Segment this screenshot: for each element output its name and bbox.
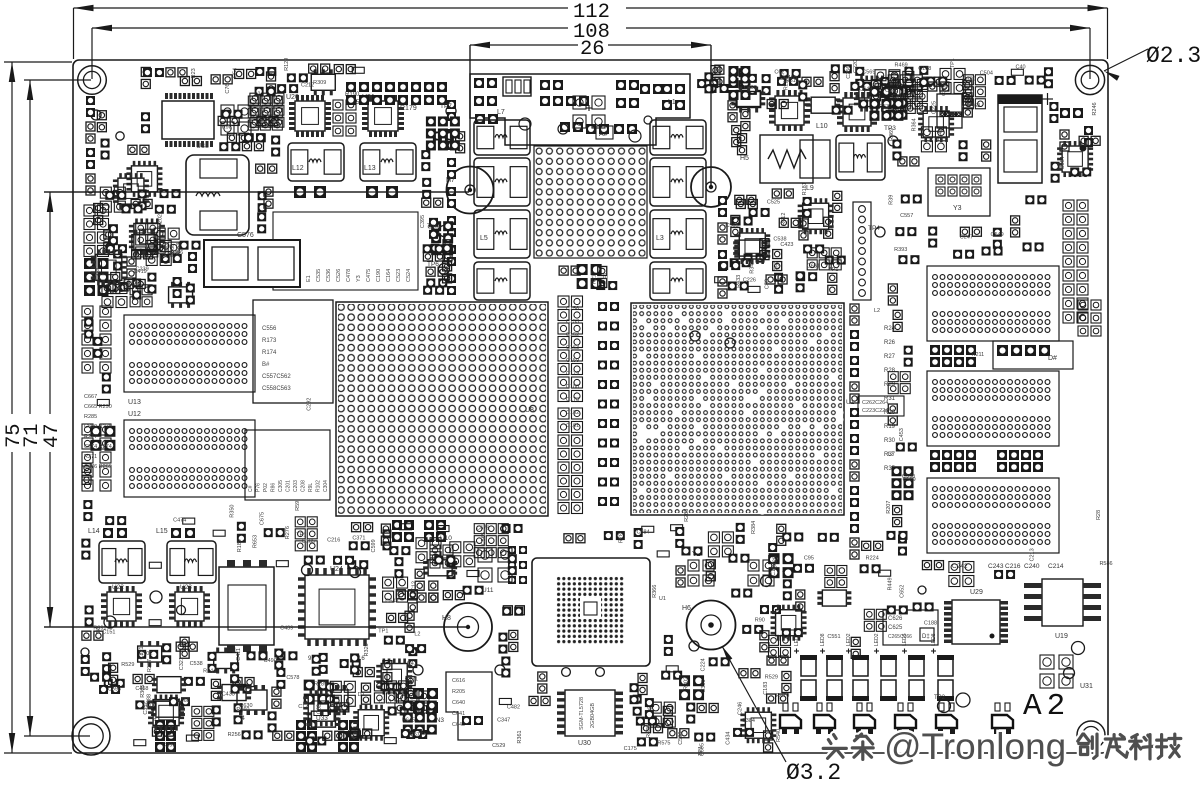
svg-text:P02: P02 bbox=[263, 483, 269, 492]
svg-text:C504: C504 bbox=[980, 71, 993, 77]
svg-text:R59: R59 bbox=[295, 501, 301, 511]
svg-text:C475: C475 bbox=[366, 269, 372, 282]
svg-text:U19: U19 bbox=[1055, 633, 1068, 640]
svg-text:C17: C17 bbox=[298, 704, 308, 710]
svg-text:C536: C536 bbox=[326, 269, 332, 282]
svg-text:U22: U22 bbox=[112, 584, 124, 591]
svg-text:R189: R189 bbox=[237, 539, 243, 552]
svg-text:C576: C576 bbox=[237, 232, 254, 239]
svg-text:C384: C384 bbox=[96, 267, 102, 280]
svg-text:C41: C41 bbox=[152, 715, 158, 725]
svg-text:C439: C439 bbox=[280, 625, 293, 631]
svg-text:C212: C212 bbox=[301, 82, 314, 88]
svg-text:C490: C490 bbox=[264, 658, 277, 664]
svg-text:R540: R540 bbox=[776, 729, 782, 742]
svg-text:U1: U1 bbox=[659, 596, 666, 602]
svg-text:C667: C667 bbox=[84, 394, 97, 400]
svg-text:TP4: TP4 bbox=[868, 225, 880, 232]
svg-text:R276: R276 bbox=[285, 526, 291, 539]
svg-text:R302: R302 bbox=[683, 677, 689, 690]
svg-text:C667: C667 bbox=[125, 279, 131, 292]
svg-text:R469: R469 bbox=[889, 128, 895, 141]
svg-text:U24: U24 bbox=[330, 566, 343, 573]
svg-text:C674 R274: C674 R274 bbox=[84, 444, 112, 450]
svg-text:C577: C577 bbox=[410, 732, 423, 738]
svg-text:Ø2.3: Ø2.3 bbox=[1146, 43, 1200, 69]
svg-text:C256: C256 bbox=[846, 66, 852, 79]
svg-text:SGM-TL5728: SGM-TL5728 bbox=[579, 697, 585, 730]
svg-text:C225: C225 bbox=[932, 101, 938, 114]
svg-text:C596: C596 bbox=[108, 687, 121, 693]
svg-text:C538: C538 bbox=[773, 237, 786, 243]
svg-text:C669 R279: C669 R279 bbox=[84, 424, 112, 430]
svg-text:C203: C203 bbox=[293, 480, 299, 492]
svg-text:C208: C208 bbox=[301, 480, 307, 492]
svg-text:R28: R28 bbox=[1096, 510, 1102, 520]
svg-text:C171: C171 bbox=[405, 676, 418, 682]
svg-text:E1: E1 bbox=[306, 275, 312, 282]
svg-text:C76: C76 bbox=[225, 83, 231, 93]
svg-text:R28: R28 bbox=[884, 368, 896, 374]
svg-text:R207: R207 bbox=[886, 501, 892, 514]
svg-text:C557: C557 bbox=[900, 213, 913, 219]
svg-text:L14: L14 bbox=[88, 528, 100, 535]
svg-text:TP1: TP1 bbox=[698, 746, 704, 756]
svg-text:C478: C478 bbox=[346, 269, 352, 282]
svg-text:R384: R384 bbox=[751, 521, 757, 534]
svg-text:R320: R320 bbox=[364, 643, 370, 656]
svg-text:C213: C213 bbox=[1030, 548, 1036, 561]
svg-text:C420: C420 bbox=[772, 556, 778, 569]
svg-text:R23: R23 bbox=[191, 68, 197, 78]
svg-text:TP1: TP1 bbox=[828, 267, 838, 273]
svg-text:C265C266: C265C266 bbox=[888, 634, 912, 640]
svg-text:C565: C565 bbox=[725, 223, 738, 229]
svg-text:C463: C463 bbox=[967, 103, 980, 109]
svg-text:C53: C53 bbox=[879, 104, 889, 110]
svg-text:R78: R78 bbox=[618, 533, 624, 543]
svg-text:U20: U20 bbox=[286, 94, 299, 101]
svg-text:C551: C551 bbox=[827, 634, 840, 640]
svg-text:26: 26 bbox=[580, 38, 605, 61]
svg-text:C625: C625 bbox=[888, 625, 903, 631]
svg-text:R181: R181 bbox=[802, 182, 808, 195]
svg-text:L2: L2 bbox=[254, 92, 260, 98]
svg-text:C538: C538 bbox=[190, 661, 203, 667]
svg-text:A#: A# bbox=[599, 131, 608, 138]
svg-text:R356: R356 bbox=[170, 250, 183, 256]
svg-text:Y3: Y3 bbox=[953, 205, 962, 212]
svg-text:R129: R129 bbox=[284, 58, 290, 71]
svg-text:C156: C156 bbox=[566, 306, 579, 312]
svg-text:R364: R364 bbox=[912, 118, 918, 131]
svg-text:TP2: TP2 bbox=[934, 695, 946, 701]
svg-text:R529: R529 bbox=[121, 662, 134, 668]
svg-text:C243: C243 bbox=[988, 563, 1004, 570]
svg-text:R179: R179 bbox=[400, 105, 417, 112]
svg-text:C411: C411 bbox=[236, 648, 242, 661]
svg-text:U11: U11 bbox=[482, 587, 494, 594]
svg-text:R202: R202 bbox=[157, 214, 163, 227]
svg-text:R653: R653 bbox=[252, 535, 258, 548]
svg-text:P76: P76 bbox=[256, 483, 262, 492]
svg-text:U23: U23 bbox=[180, 584, 192, 591]
svg-text:D1: D1 bbox=[358, 692, 365, 698]
svg-text:2GB04GB: 2GB04GB bbox=[590, 703, 596, 728]
svg-text:C433: C433 bbox=[222, 692, 235, 698]
svg-text:C640: C640 bbox=[452, 700, 465, 706]
svg-text:R217: R217 bbox=[591, 271, 597, 284]
svg-text:R612: R612 bbox=[781, 213, 787, 226]
svg-text:C161: C161 bbox=[566, 423, 579, 429]
svg-text:C95: C95 bbox=[804, 555, 814, 561]
svg-text:C434: C434 bbox=[726, 732, 732, 745]
svg-text:R285: R285 bbox=[84, 414, 97, 420]
svg-text:C365: C365 bbox=[427, 225, 440, 231]
svg-text:C188: C188 bbox=[924, 621, 937, 627]
svg-text:C356: C356 bbox=[701, 680, 707, 693]
svg-text:C371: C371 bbox=[352, 535, 365, 541]
svg-text:R510: R510 bbox=[162, 243, 168, 256]
svg-text:U13: U13 bbox=[128, 399, 141, 406]
svg-text:C558C563: C558C563 bbox=[262, 386, 291, 392]
svg-text:C292: C292 bbox=[307, 398, 313, 411]
svg-text:R27: R27 bbox=[884, 354, 896, 360]
svg-text:C652: C652 bbox=[900, 585, 906, 598]
svg-text:C40: C40 bbox=[1015, 64, 1025, 70]
svg-text:C416: C416 bbox=[892, 94, 905, 100]
svg-text:C321: C321 bbox=[139, 646, 145, 659]
svg-text:C53: C53 bbox=[765, 279, 771, 289]
svg-text:R361: R361 bbox=[517, 730, 523, 743]
svg-text:C165: C165 bbox=[302, 539, 315, 545]
svg-text:R173: R173 bbox=[262, 338, 277, 344]
svg-text:U38: U38 bbox=[196, 143, 209, 150]
svg-text:C380: C380 bbox=[962, 77, 975, 83]
svg-text:R9L: R9L bbox=[308, 483, 314, 492]
svg-text:B#: B# bbox=[262, 362, 270, 368]
svg-text:L12: L12 bbox=[292, 165, 304, 172]
svg-text:TP1: TP1 bbox=[950, 58, 956, 68]
svg-text:L2: L2 bbox=[874, 308, 880, 314]
svg-text:U10: U10 bbox=[440, 535, 452, 542]
svg-text:R366: R366 bbox=[652, 585, 658, 598]
svg-text:C455: C455 bbox=[942, 83, 948, 96]
svg-text:R289: R289 bbox=[314, 682, 327, 688]
svg-text:R30: R30 bbox=[884, 438, 896, 444]
svg-text:C584: C584 bbox=[637, 529, 650, 535]
svg-text:C347: C347 bbox=[497, 718, 510, 724]
svg-text:L2: L2 bbox=[887, 452, 893, 458]
svg-text:C12: C12 bbox=[411, 581, 417, 591]
svg-text:R97: R97 bbox=[775, 261, 781, 271]
svg-text:C226: C226 bbox=[743, 277, 756, 283]
svg-text:C#: C# bbox=[248, 485, 254, 492]
svg-text:R205: R205 bbox=[452, 689, 465, 695]
svg-text:C223C224: C223C224 bbox=[862, 408, 888, 414]
svg-text:C41: C41 bbox=[407, 661, 417, 667]
svg-text:C247: C247 bbox=[960, 234, 973, 240]
svg-text:L10: L10 bbox=[816, 123, 828, 130]
svg-text:R449: R449 bbox=[888, 577, 894, 590]
svg-text:R575: R575 bbox=[657, 741, 670, 747]
svg-text:C188: C188 bbox=[918, 66, 931, 72]
svg-text:C201: C201 bbox=[286, 480, 292, 492]
svg-text:L5: L5 bbox=[480, 235, 488, 242]
svg-text:C474: C474 bbox=[173, 517, 186, 523]
svg-text:R393: R393 bbox=[894, 247, 907, 253]
svg-text:L1: L1 bbox=[668, 99, 676, 106]
svg-text:U29: U29 bbox=[970, 589, 983, 596]
svg-text:C648: C648 bbox=[385, 598, 398, 604]
svg-text:C214: C214 bbox=[1048, 563, 1064, 570]
svg-text:TP7: TP7 bbox=[440, 103, 452, 110]
svg-text:R86: R86 bbox=[271, 483, 277, 492]
svg-text:D‡: D‡ bbox=[922, 634, 930, 640]
svg-text:U12: U12 bbox=[128, 411, 141, 418]
svg-text:C240: C240 bbox=[1024, 563, 1040, 570]
svg-text:R90: R90 bbox=[755, 617, 765, 623]
svg-text:C220: C220 bbox=[853, 60, 859, 73]
svg-text:L7: L7 bbox=[497, 109, 505, 116]
svg-text:TP1: TP1 bbox=[296, 533, 306, 539]
svg-text:R256: R256 bbox=[228, 732, 241, 738]
svg-text:47: 47 bbox=[41, 423, 64, 448]
svg-text:R224: R224 bbox=[866, 556, 879, 562]
svg-text:Y3: Y3 bbox=[356, 275, 362, 282]
svg-text:D#: D# bbox=[1048, 355, 1057, 362]
svg-text:H6: H6 bbox=[682, 605, 691, 612]
svg-text:H7: H7 bbox=[446, 177, 455, 184]
svg-text:L15: L15 bbox=[156, 528, 168, 535]
svg-text:C239: C239 bbox=[135, 267, 148, 273]
svg-text:A2: A2 bbox=[1023, 689, 1070, 724]
svg-text:R645: R645 bbox=[402, 718, 415, 724]
svg-text:@Tronlong: @Tronlong bbox=[884, 726, 1066, 767]
svg-text:R211: R211 bbox=[971, 352, 984, 358]
svg-text:C523: C523 bbox=[396, 269, 402, 282]
svg-text:R26: R26 bbox=[884, 340, 896, 346]
svg-text:C182: C182 bbox=[566, 410, 579, 416]
svg-text:C321: C321 bbox=[179, 657, 185, 670]
svg-text:U8: U8 bbox=[525, 407, 534, 414]
svg-text:C216: C216 bbox=[327, 538, 340, 544]
svg-text:C465: C465 bbox=[784, 75, 797, 81]
svg-text:C305: C305 bbox=[278, 480, 284, 492]
svg-text:C159: C159 bbox=[566, 358, 579, 364]
svg-text:C62: C62 bbox=[317, 704, 323, 714]
svg-text:R98: R98 bbox=[222, 124, 232, 130]
svg-text:TP1: TP1 bbox=[378, 628, 388, 634]
svg-text:C179: C179 bbox=[566, 371, 579, 377]
svg-text:C525: C525 bbox=[767, 199, 780, 205]
svg-text:C678: C678 bbox=[476, 525, 489, 531]
svg-text:C178: C178 bbox=[566, 397, 579, 403]
svg-text:C395: C395 bbox=[420, 215, 426, 228]
svg-text:C304: C304 bbox=[323, 480, 329, 492]
svg-text:C540: C540 bbox=[938, 128, 944, 141]
svg-text:C54: C54 bbox=[233, 68, 239, 78]
svg-text:C599: C599 bbox=[371, 539, 377, 552]
svg-text:H8: H8 bbox=[442, 615, 451, 622]
svg-text:R368: R368 bbox=[177, 698, 190, 704]
svg-text:C556: C556 bbox=[262, 326, 277, 332]
svg-text:C357: C357 bbox=[143, 701, 149, 714]
svg-text:C190: C190 bbox=[376, 269, 382, 282]
svg-text:C526: C526 bbox=[336, 269, 342, 282]
svg-text:C605: C605 bbox=[260, 107, 266, 120]
svg-text:R102: R102 bbox=[316, 480, 322, 492]
svg-text:C180: C180 bbox=[566, 384, 579, 390]
svg-text:C153: C153 bbox=[566, 319, 579, 325]
svg-text:R630: R630 bbox=[239, 703, 252, 709]
svg-text:R342: R342 bbox=[749, 261, 755, 274]
svg-text:C661: C661 bbox=[807, 264, 820, 270]
svg-text:C482: C482 bbox=[507, 705, 520, 711]
svg-text:C616: C616 bbox=[452, 678, 465, 684]
svg-text:C453: C453 bbox=[899, 428, 905, 441]
svg-text:R469: R469 bbox=[895, 62, 908, 68]
svg-text:L3: L3 bbox=[656, 235, 664, 242]
svg-text:LED2: LED2 bbox=[874, 633, 880, 646]
svg-text:C549: C549 bbox=[991, 232, 1004, 238]
svg-text:U1: U1 bbox=[846, 399, 855, 406]
svg-text:C586: C586 bbox=[678, 732, 684, 745]
svg-text:C529: C529 bbox=[492, 743, 505, 749]
svg-text:R309: R309 bbox=[313, 80, 326, 86]
svg-text:R244: R244 bbox=[203, 668, 216, 674]
svg-text:L13: L13 bbox=[364, 165, 376, 172]
svg-text:L2: L2 bbox=[414, 632, 420, 638]
svg-text:R246: R246 bbox=[1092, 102, 1098, 115]
svg-text:C183: C183 bbox=[763, 682, 769, 695]
svg-text:C384: C384 bbox=[742, 718, 755, 724]
svg-text:C524: C524 bbox=[406, 269, 412, 282]
svg-text:C665 R290: C665 R290 bbox=[84, 404, 112, 410]
svg-text:H5: H5 bbox=[740, 155, 749, 162]
svg-text:U30: U30 bbox=[578, 740, 591, 747]
svg-text:C246: C246 bbox=[738, 702, 744, 715]
svg-text:R297: R297 bbox=[147, 659, 153, 672]
svg-text:C626: C626 bbox=[888, 616, 903, 622]
svg-text:C262C264: C262C264 bbox=[862, 400, 888, 406]
svg-text:E2: E2 bbox=[604, 273, 610, 280]
svg-text:C676 R269: C676 R269 bbox=[84, 464, 112, 470]
svg-text:C175: C175 bbox=[624, 746, 637, 752]
svg-text:C649: C649 bbox=[859, 86, 872, 92]
svg-text:C162: C162 bbox=[566, 332, 579, 338]
svg-text:C216: C216 bbox=[1005, 563, 1021, 570]
svg-text:R586: R586 bbox=[1099, 561, 1112, 567]
svg-text:R436: R436 bbox=[646, 725, 652, 738]
svg-text:C423: C423 bbox=[780, 242, 793, 248]
svg-text:C578: C578 bbox=[286, 675, 299, 681]
svg-text:C384: C384 bbox=[1060, 156, 1066, 169]
svg-text:C535: C535 bbox=[316, 269, 322, 282]
svg-text:D1: D1 bbox=[96, 626, 102, 633]
svg-text:C569: C569 bbox=[862, 70, 875, 76]
svg-text:R263: R263 bbox=[684, 509, 690, 522]
svg-text:R350: R350 bbox=[229, 505, 235, 518]
svg-text:C565: C565 bbox=[481, 532, 487, 545]
svg-text:C224: C224 bbox=[700, 658, 706, 671]
svg-text:C164: C164 bbox=[386, 269, 392, 282]
svg-text:C589: C589 bbox=[903, 477, 916, 483]
svg-text:R433: R433 bbox=[736, 275, 742, 288]
svg-text:R277: R277 bbox=[84, 434, 97, 440]
svg-text:R529: R529 bbox=[765, 674, 778, 680]
svg-text:R470: R470 bbox=[776, 693, 789, 699]
svg-text:R29: R29 bbox=[884, 382, 896, 388]
svg-text:R365: R365 bbox=[140, 685, 146, 698]
svg-text:Ø3.2: Ø3.2 bbox=[786, 760, 841, 785]
svg-text:C675: C675 bbox=[259, 512, 265, 525]
svg-text:C299: C299 bbox=[162, 742, 175, 748]
svg-text:C557C562: C557C562 bbox=[262, 374, 291, 380]
svg-text:R39: R39 bbox=[888, 195, 894, 205]
svg-text:C490: C490 bbox=[744, 85, 757, 91]
svg-text:LED8: LED8 bbox=[820, 633, 826, 646]
svg-text:C113: C113 bbox=[379, 699, 392, 705]
svg-text:R271: R271 bbox=[84, 454, 97, 460]
svg-text:U31: U31 bbox=[1080, 683, 1093, 690]
svg-text:R174: R174 bbox=[262, 350, 277, 356]
svg-text:C163: C163 bbox=[566, 345, 579, 351]
